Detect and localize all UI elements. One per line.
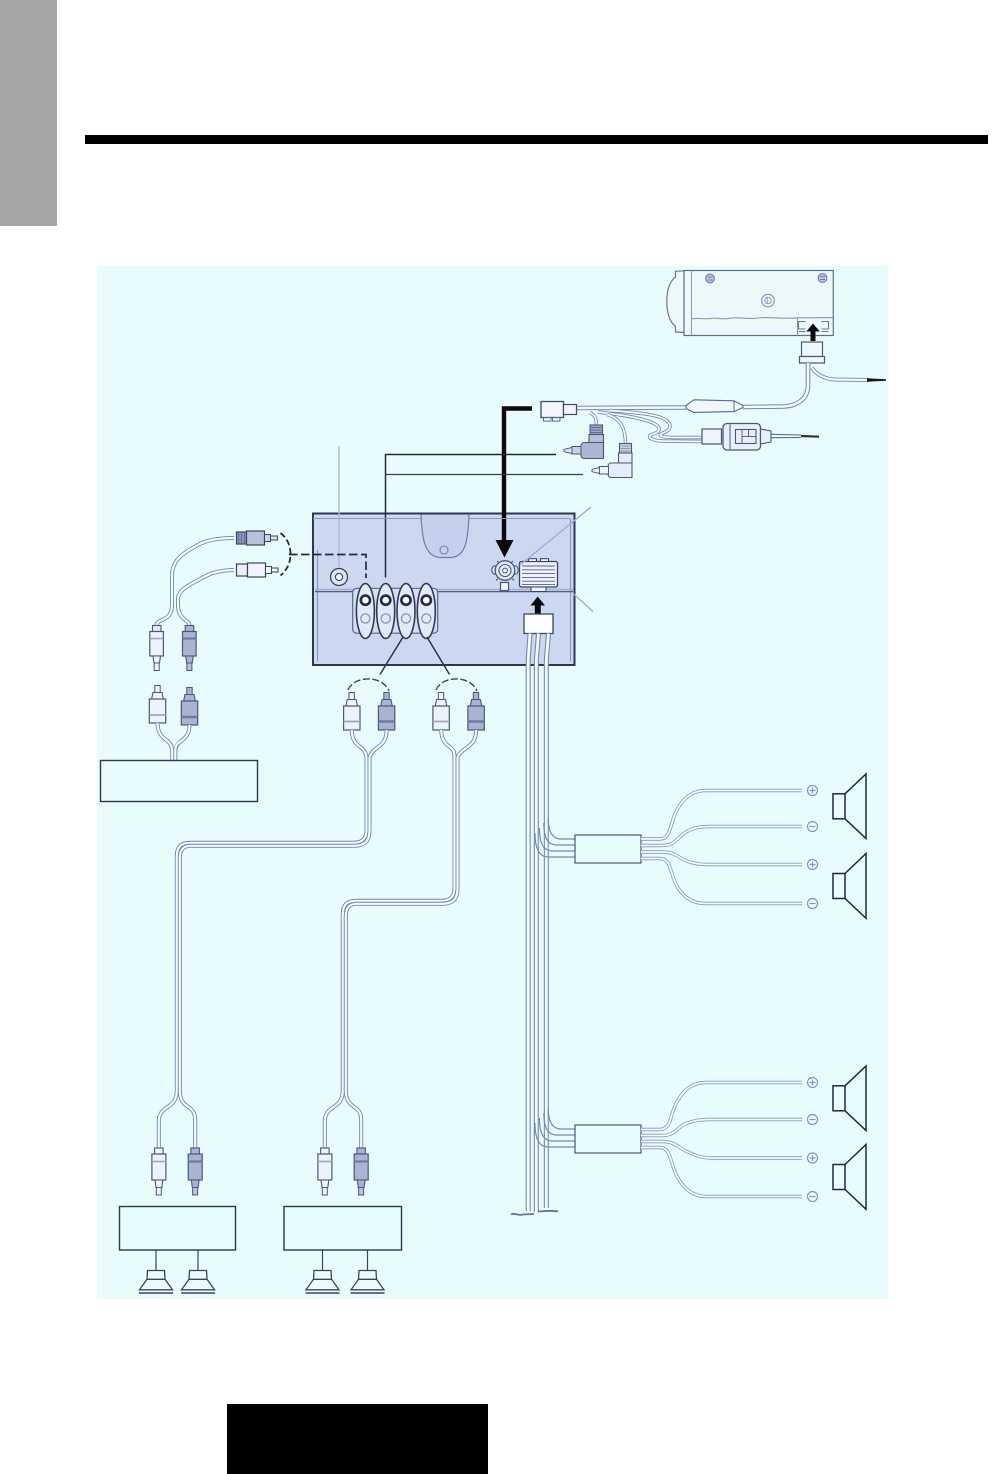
light leader line to antenna jack [338, 446, 340, 570]
down plug gray (right) [185, 626, 194, 632]
harness curls into junction box 1 [535, 818, 576, 857]
pair1 Y merge and long cable to bottom-left [159, 730, 367, 1150]
up plug white (left) [155, 686, 160, 693]
white power connector [541, 402, 564, 418]
speaker symbol front-left [833, 774, 866, 839]
molex harness socket [520, 562, 558, 588]
right-angle plug 1 (gray) [590, 425, 603, 435]
up plug gray (right) [187, 688, 192, 695]
hide-away tuner unit body [667, 271, 684, 333]
junction box 1 [575, 835, 641, 863]
RCA oval jack 1 [356, 584, 374, 639]
top sleeve cutout notch [421, 515, 469, 558]
antenna joint right nub [761, 429, 772, 444]
cable from splice to white connector [576, 405, 686, 410]
left Y-cable upper run [172, 538, 234, 608]
antenna joint main block [723, 424, 761, 451]
RCA oval jack 2 [377, 584, 395, 639]
pair2 Y merge and long cable to bottom-middle [325, 730, 455, 1150]
RCA oval jack 4 [417, 584, 435, 639]
black arrow into unit socket [806, 324, 820, 342]
socket tab left [799, 322, 806, 332]
callout line lower (to right-angle plug 2) [386, 474, 584, 476]
diagram background [97, 266, 888, 1299]
plus symbol speaker1 [808, 786, 818, 796]
plus symbol speaker4 [808, 1153, 818, 1163]
pair3 gray down plug [191, 1148, 200, 1154]
thick black elbow arrow down to antenna socket [504, 409, 532, 541]
small speaker 2 [197, 1251, 199, 1272]
head unit inner bezel [313, 519, 571, 662]
S-bend cable pair to antenna joint [610, 411, 702, 438]
minus symbol speaker4 [808, 1192, 818, 1202]
socket tab right [822, 322, 829, 332]
harness wire bundle (3 tubes) [528, 634, 548, 1213]
antenna socket on rear (wing nut) [492, 566, 498, 574]
screw top-left [706, 274, 715, 283]
black wire tip right [867, 378, 886, 382]
junction box 2 [575, 1125, 641, 1153]
speaker wires from box2 [641, 1083, 802, 1197]
pair2 gray up plug [473, 693, 478, 700]
unit socket recess [797, 318, 799, 336]
RCA output plate [353, 588, 438, 633]
pair2 white up plug [438, 693, 443, 700]
notch screw hole [440, 546, 448, 554]
minus symbol speaker3 [808, 1115, 818, 1125]
harness connector white block [524, 614, 553, 634]
branch wire to black tip [812, 368, 869, 380]
pair1 white up plug [349, 693, 354, 700]
leader diagonal to pair 2 [427, 637, 450, 675]
amplifier box upper left [101, 761, 258, 802]
Y split to down plugs [157, 605, 173, 626]
RCA plug right-pointing white [237, 564, 248, 576]
black redaction box bottom [227, 1404, 488, 1474]
cable plug block under unit [802, 342, 823, 357]
head unit divider seam [315, 588, 573, 590]
amplifier box bottom-middle [284, 1207, 402, 1251]
inline splice lump [686, 400, 743, 413]
minus symbol speaker1 [808, 822, 818, 832]
pair4 gray down plug [357, 1148, 366, 1154]
down plug white (left) [153, 626, 162, 632]
antenna pin dark tip [801, 435, 819, 438]
leader diagonal to pair 1 [380, 637, 403, 675]
Y merge from up plugs to amp [158, 723, 173, 760]
RCA plug right-pointing gray [237, 532, 247, 544]
amplifier box bottom-left [120, 1207, 236, 1251]
right-angle plug 2 (white) [620, 444, 632, 454]
speaker symbol rear-left [833, 1066, 866, 1131]
black header rule [85, 135, 988, 144]
unit bottom seam wavy line [692, 318, 833, 319]
minus symbol speaker2 [808, 899, 818, 909]
plus symbol speaker2 [808, 860, 818, 870]
callout from left RCA pair arc to jack 1 [289, 555, 366, 579]
antenna joint left sleeve [702, 429, 722, 444]
callout line upper (to right-angle plug 1) [386, 455, 557, 578]
main cable from unit plug curving left [743, 363, 808, 407]
frayed wire ends [511, 1214, 534, 1215]
pair4 white down plug [321, 1148, 330, 1154]
gray sidebar tab [0, 0, 57, 226]
speaker wires from box1 [641, 791, 802, 904]
arc bracket of left RCA pair [281, 533, 291, 576]
diagonal leader upper right [520, 507, 591, 565]
diagonal leader lower right [573, 594, 593, 612]
cable drop to right-angle plug 2 [607, 415, 626, 445]
small speaker 4 [367, 1251, 369, 1272]
antenna pin [771, 434, 801, 437]
speaker symbol rear-right [833, 1145, 866, 1210]
black arrow up into molex [531, 597, 546, 615]
plus symbol speaker3 [808, 1078, 818, 1088]
arc over pair 2 [436, 679, 477, 691]
harness curls into junction box 2 [535, 1108, 576, 1147]
screw top-right [818, 274, 827, 283]
head unit body [313, 514, 575, 666]
pair3 white down plug [155, 1148, 164, 1154]
diagram panel [97, 266, 888, 1299]
small speaker 3 [322, 1251, 324, 1272]
left antenna jack [331, 569, 348, 586]
speaker symbol front-right [833, 854, 866, 919]
RCA oval jack 3 [397, 584, 415, 639]
arc over pair 1 [348, 679, 389, 691]
center emblem circle [762, 294, 775, 307]
cable drop to right-angle plug 1 [590, 413, 597, 427]
unit left panel line [691, 271, 693, 336]
pair1 gray up plug [384, 693, 389, 700]
small speaker 1 [155, 1251, 157, 1272]
